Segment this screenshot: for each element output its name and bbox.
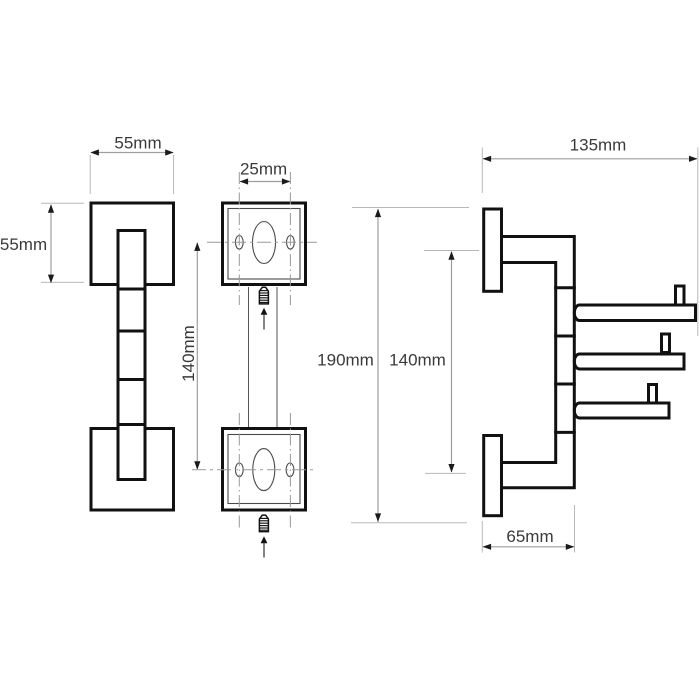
svg-text:140mm: 140mm: [179, 325, 198, 382]
svg-text:190mm: 190mm: [317, 351, 374, 370]
svg-text:55mm: 55mm: [114, 134, 161, 153]
svg-text:55mm: 55mm: [0, 235, 47, 254]
svg-text:65mm: 65mm: [506, 527, 553, 546]
svg-text:140mm: 140mm: [389, 351, 446, 370]
svg-text:135mm: 135mm: [570, 136, 627, 155]
svg-text:25mm: 25mm: [240, 160, 287, 179]
